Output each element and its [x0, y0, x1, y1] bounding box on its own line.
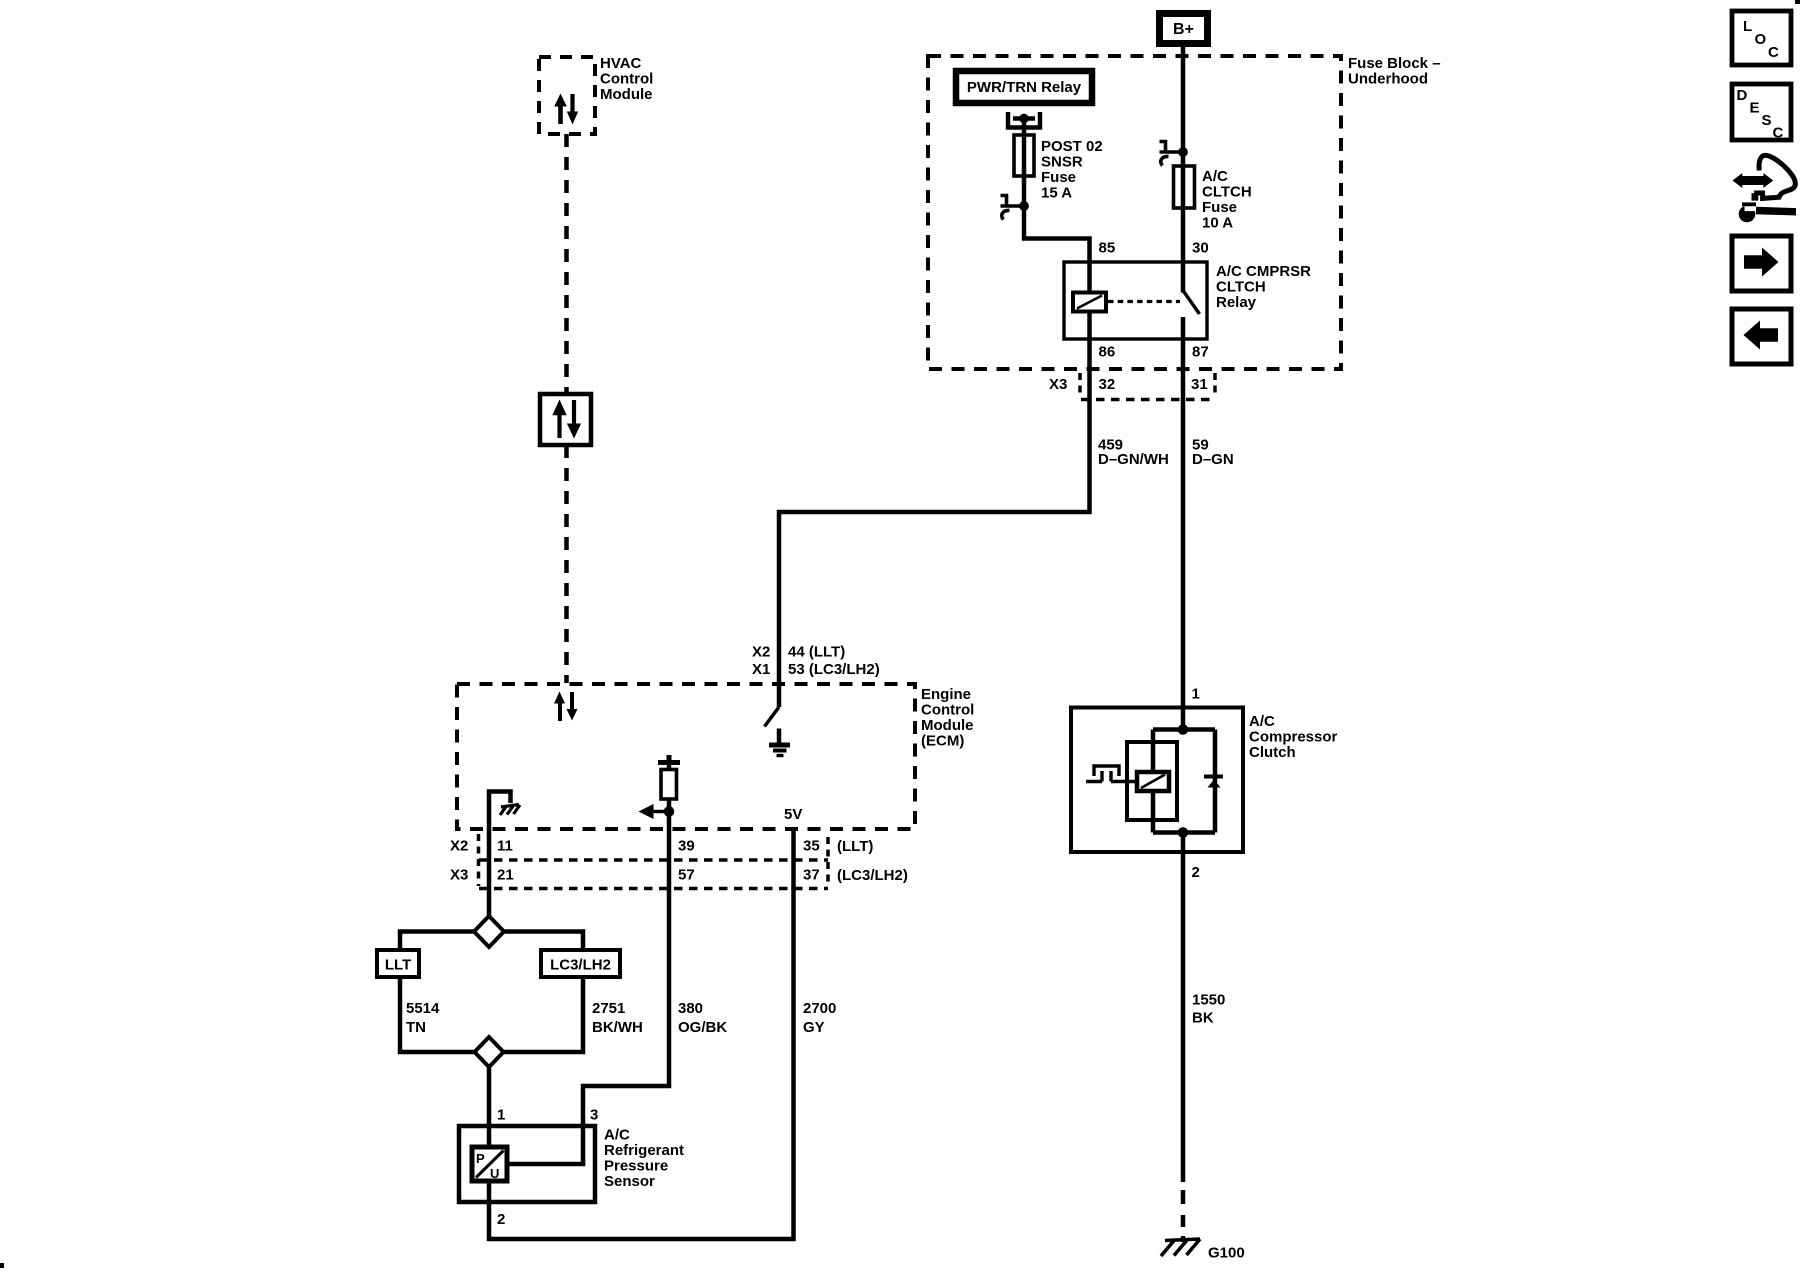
clutch coil: [1137, 772, 1169, 791]
svg-text:X3: X3: [450, 867, 468, 884]
wire 380 OG/BK label: [678, 1000, 727, 1036]
corner artifact top right: [1795, 0, 1800, 4]
svg-text:53 (LC3/LH2): 53 (LC3/LH2): [788, 661, 880, 678]
svg-text:Fuse Block –: Fuse Block –: [1348, 55, 1441, 72]
svg-text:39: 39: [678, 838, 695, 855]
clip symbol on A/C CLTCH fuse wire: [1160, 140, 1188, 166]
svg-text:Control: Control: [600, 71, 653, 88]
clamping diode: [1204, 777, 1223, 788]
pin 31 label: [1191, 376, 1208, 393]
G100 label: [1208, 1245, 1245, 1262]
pin 21 label: [497, 867, 514, 884]
POST 02 fuse label: [1041, 138, 1103, 202]
splice diamond upper: [474, 916, 504, 947]
svg-text:11: 11: [497, 838, 513, 855]
pin 87 label: [1192, 344, 1209, 361]
node upper junction: [1178, 724, 1189, 735]
svg-text:CLTCH: CLTCH: [1202, 184, 1252, 201]
PWR/TRN Relay box: [956, 71, 1092, 103]
HVAC up arrow: [554, 94, 567, 125]
repair icon double arrow: [1733, 173, 1774, 188]
svg-text:CLTCH: CLTCH: [1216, 279, 1266, 296]
dashed wire to ground: [1181, 1190, 1186, 1242]
wire 2751 BK/WH label: [592, 1000, 643, 1036]
svg-text:LC3/LH2: LC3/LH2: [550, 957, 611, 974]
svg-text:B+: B+: [1173, 21, 1194, 38]
pin 32 label: [1099, 376, 1116, 393]
wire 5V from ECM pin 35/37 down around to sensor pin 2: [489, 829, 794, 1239]
connector X2/X1 pin labels at ECM input: [752, 644, 880, 679]
relay switch: [1183, 291, 1200, 315]
svg-text:30: 30: [1192, 240, 1209, 257]
pin 35 label: [803, 838, 820, 855]
ECM 5V supply T-bar: [658, 755, 680, 763]
HVAC Control Module (dashed box): [539, 57, 595, 134]
corner artifact bottom left: [0, 1263, 4, 1268]
svg-text:Compressor: Compressor: [1249, 729, 1338, 746]
svg-text:3: 3: [590, 1107, 598, 1124]
svg-text:Engine: Engine: [921, 686, 971, 703]
svg-text:A/C CMPRSR: A/C CMPRSR: [1216, 263, 1311, 280]
svg-text:Clutch: Clutch: [1249, 744, 1296, 761]
ECM label: [921, 686, 974, 750]
pin 57 label: [678, 867, 695, 884]
svg-text:Underhood: Underhood: [1348, 71, 1428, 88]
thermal limiter symbol: [1086, 766, 1137, 782]
ECM internal chassis ground wire: [489, 792, 511, 917]
svg-text:C: C: [1768, 44, 1779, 61]
sensor label: [604, 1127, 684, 1191]
svg-text:A/C: A/C: [1202, 168, 1228, 185]
wire P/U to pin 3: [507, 1162, 585, 1167]
svg-text:LLT: LLT: [385, 957, 411, 974]
HVAC module label: [600, 55, 653, 103]
clutch coil housing rect: [1127, 742, 1177, 820]
svg-text:Control: Control: [921, 702, 974, 719]
LC3/LH2 variant box: [541, 950, 620, 977]
LOC nav box: [1732, 11, 1791, 65]
svg-text:BK: BK: [1192, 1010, 1214, 1027]
svg-text:10 A: 10 A: [1202, 215, 1233, 232]
svg-text:D–GN/WH: D–GN/WH: [1098, 451, 1169, 468]
clip symbol on POST 02 fuse wire: [1001, 194, 1029, 220]
svg-text:87: 87: [1192, 344, 1209, 361]
pin 11 label: [497, 838, 513, 855]
svg-text:(ECM): (ECM): [921, 733, 964, 750]
A/C Refrigerant Pressure Sensor box: [459, 1126, 595, 1202]
relay label: [1216, 263, 1311, 311]
ground G100 symbol: [1161, 1239, 1200, 1256]
connector down arrow: [567, 400, 581, 439]
forward nav box: [1732, 236, 1791, 291]
ECM down arrow: [567, 692, 578, 721]
svg-text:POST 02: POST 02: [1041, 138, 1103, 155]
wire (dashed) connector to ECM: [564, 445, 569, 683]
svg-text:G100: G100: [1208, 1245, 1245, 1262]
pin 1 label: [497, 1107, 505, 1124]
X3 label: [1049, 376, 1067, 393]
wire (dashed) HVAC to connector: [564, 134, 569, 394]
pin 30 label: [1192, 240, 1209, 257]
svg-text:2700: 2700: [803, 1000, 836, 1017]
repair icon wrench: [1739, 202, 1796, 222]
svg-text:BK/WH: BK/WH: [592, 1019, 643, 1036]
svg-text:57: 57: [678, 867, 695, 884]
svg-text:SNSR: SNSR: [1041, 154, 1083, 171]
svg-text:380: 380: [678, 1000, 703, 1017]
node lower junction: [1178, 827, 1189, 838]
svg-text:Sensor: Sensor: [604, 1173, 655, 1190]
wire 459 label: [1098, 437, 1169, 469]
svg-text:2: 2: [1192, 864, 1200, 881]
svg-text:31: 31: [1191, 376, 1208, 393]
svg-text:5514: 5514: [406, 1000, 440, 1017]
svg-text:HVAC: HVAC: [600, 55, 642, 72]
svg-text:Pressure: Pressure: [604, 1158, 668, 1175]
svg-text:86: 86: [1099, 344, 1116, 361]
svg-text:U: U: [490, 1166, 499, 1181]
svg-text:D: D: [1737, 87, 1748, 104]
svg-text:E: E: [1750, 100, 1760, 117]
svg-text:Relay: Relay: [1216, 294, 1257, 311]
svg-text:2: 2: [497, 1211, 505, 1228]
clutch label: [1249, 713, 1338, 761]
svg-text:(LC3/LH2): (LC3/LH2): [837, 867, 908, 884]
A/C CLTCH Fuse 10 A: [1174, 166, 1195, 208]
A/C CMPRSR CLTCH Relay box: [1064, 262, 1207, 339]
connector row labels: [450, 838, 908, 885]
svg-text:X3: X3: [1049, 376, 1067, 393]
svg-text:1: 1: [1192, 686, 1200, 703]
svg-text:D–GN: D–GN: [1192, 451, 1234, 468]
svg-text:X2: X2: [752, 644, 770, 661]
pin 85 label: [1099, 240, 1116, 257]
wire 1550 BK label: [1192, 992, 1225, 1027]
POST 02 SNSR Fuse 15 A: [1014, 135, 1034, 176]
wire clutch pin 2 down: [1181, 833, 1186, 1183]
relay coil: [1073, 293, 1106, 312]
ECM internal ground: [769, 729, 790, 756]
repair icon curved arrow outline: [1752, 155, 1796, 200]
svg-text:15 A: 15 A: [1041, 185, 1072, 202]
wire B+ down to relay pin 30: [1181, 47, 1186, 293]
wire 2700 GY label: [803, 1000, 836, 1036]
pin 86 label: [1099, 344, 1116, 361]
ECM up arrow: [554, 692, 565, 722]
ECM connector rows X2/X3 (dashed): [479, 834, 829, 889]
5V label: [784, 806, 802, 823]
bracket connector under PWR/TRN relay: [1008, 112, 1040, 128]
LLT variant box: [377, 950, 419, 977]
P/U transducer symbol: [472, 1147, 507, 1181]
svg-text:32: 32: [1099, 376, 1116, 393]
svg-text:21: 21: [497, 867, 514, 884]
svg-text:A/C: A/C: [604, 1127, 630, 1144]
wire diamond to LC3/LH2 box: [504, 932, 583, 951]
wire lower diamond to sensor pin 1: [487, 1067, 492, 1147]
wire LC3/LH2 box to lower diamond: [504, 977, 583, 1052]
ECM pull-up resistor: [661, 764, 677, 799]
HVAC down arrow: [567, 94, 578, 125]
svg-text:85: 85: [1099, 240, 1116, 257]
pin 37 label: [803, 867, 820, 884]
back nav box: [1732, 309, 1791, 364]
svg-text:Module: Module: [921, 717, 974, 734]
svg-text:PWR/TRN Relay: PWR/TRN Relay: [967, 79, 1082, 96]
pin 2 label (clutch): [1192, 864, 1200, 881]
clutch inner loop wires: [1153, 730, 1215, 833]
Fuse Block - Underhood (dashed box): [928, 56, 1341, 369]
connector up arrow: [552, 400, 566, 439]
svg-text:L: L: [1743, 18, 1752, 35]
wire diamond to LLT box: [400, 932, 474, 951]
relay coil-to-switch dashed link: [1108, 300, 1180, 303]
svg-text:C: C: [1773, 125, 1784, 142]
svg-text:Fuse: Fuse: [1041, 169, 1076, 186]
A/C Compressor Clutch box: [1071, 708, 1243, 853]
svg-text:X2: X2: [450, 838, 468, 855]
wire resistor down through pins 39/57 to sensor pin 3: [583, 799, 669, 1164]
pin 39 label: [678, 838, 695, 855]
svg-text:2751: 2751: [592, 1000, 625, 1017]
pin 3 label: [590, 1107, 598, 1124]
svg-text:37: 37: [803, 867, 820, 884]
Fuse Block label: [1348, 55, 1441, 88]
A/C CLTCH fuse label: [1202, 168, 1252, 232]
svg-text:Fuse: Fuse: [1202, 199, 1237, 216]
wire 5514 TN label: [406, 1000, 440, 1036]
pin 2 label: [497, 1211, 505, 1228]
wire 59 label: [1192, 437, 1234, 469]
svg-text:P: P: [476, 1151, 485, 1166]
svg-text:1550: 1550: [1192, 992, 1225, 1009]
svg-text:A/C: A/C: [1249, 713, 1275, 730]
signal arrow (to left): [639, 804, 670, 819]
splice diamond lower: [475, 1037, 504, 1067]
svg-text:OG/BK: OG/BK: [678, 1019, 727, 1036]
junction node: [664, 806, 675, 817]
X3 connector row (dashed): [1080, 373, 1215, 400]
pin 1 label (clutch): [1192, 686, 1200, 703]
svg-text:44 (LLT): 44 (LLT): [788, 644, 845, 661]
wire relay pin 87 down to clutch: [1181, 317, 1186, 730]
ECM driver switch: [765, 707, 780, 727]
svg-text:Refrigerant: Refrigerant: [604, 1142, 684, 1159]
wire from bracket through POST 02 fuse down and over to pin 85: [779, 119, 1090, 708]
B+ battery feed box: [1160, 14, 1208, 44]
wire LLT box to lower diamond: [400, 977, 474, 1052]
svg-text:S: S: [1762, 112, 1772, 129]
Engine Control Module (dashed box): [457, 684, 915, 829]
svg-text:X1: X1: [752, 661, 770, 678]
svg-text:5V: 5V: [784, 806, 802, 823]
DESC nav box: [1732, 84, 1791, 142]
svg-text:O: O: [1755, 31, 1767, 48]
svg-text:(LLT): (LLT): [837, 838, 873, 855]
in-line connector box: [540, 394, 591, 445]
svg-text:35: 35: [803, 838, 820, 855]
svg-text:Module: Module: [600, 86, 653, 103]
svg-text:1: 1: [497, 1107, 505, 1124]
chassis ground hatch symbol: [500, 805, 520, 816]
svg-text:GY: GY: [803, 1019, 825, 1036]
svg-text:TN: TN: [406, 1019, 426, 1036]
